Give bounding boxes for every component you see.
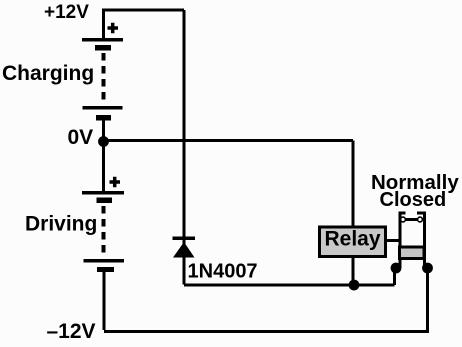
svg-text:1N4007: 1N4007	[188, 261, 258, 283]
svg-text:Driving: Driving	[25, 213, 97, 236]
svg-text:Charging: Charging	[2, 62, 94, 85]
svg-text:–12V: –12V	[47, 320, 96, 343]
svg-text:+12V: +12V	[44, 2, 89, 23]
svg-text:Relay: Relay	[325, 228, 381, 251]
svg-text:Closed: Closed	[380, 189, 447, 211]
svg-text:0V: 0V	[68, 126, 94, 149]
